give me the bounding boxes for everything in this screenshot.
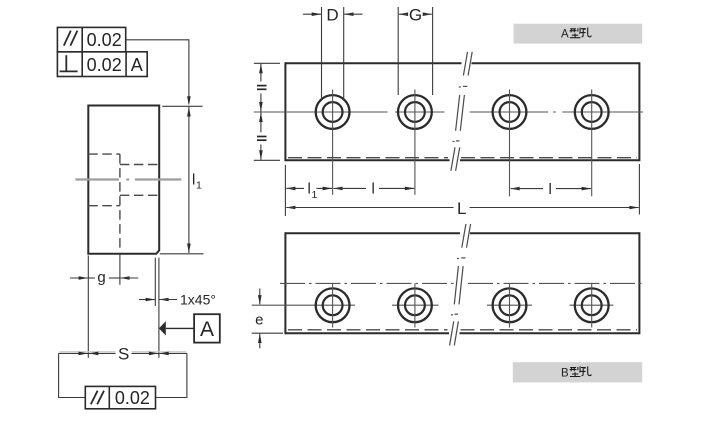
dimension l1 side view: arrow down (187, 244, 191, 254)
A-hole 3 vertical centerline + extension (509, 90, 511, 197)
svg-text:g: g (97, 269, 105, 286)
B-hole 1 vertical centerline (332, 284, 334, 328)
A-hole 1 vertical centerline + extension (332, 90, 334, 195)
A-bar label glyph kong (581, 28, 592, 37)
equal symbol lower (257, 137, 267, 141)
B-hole 3 (493, 288, 527, 322)
svg-text:L: L (457, 199, 466, 218)
B-hole 2 (398, 288, 432, 322)
hidden line bore lower-right (120, 194, 159, 196)
B-bar outline: bottom edge with break gap (285, 332, 449, 334)
A-hole 3 (493, 95, 527, 129)
A-bar label plate (514, 24, 643, 44)
A-bar outline: top edge with break gap (285, 62, 639, 161)
dimension l1 side view: top extension line (162, 105, 202, 107)
svg-text:1: 1 (312, 189, 318, 201)
svg-text:G: G (409, 6, 422, 25)
B-bar outline: right edge (638, 232, 640, 334)
dimension G: extension lines (397, 7, 399, 95)
A-hole 2 (398, 95, 432, 129)
svg-text:l: l (192, 172, 195, 189)
dimension l1 side view: bottom extension line (160, 253, 204, 255)
chamfer dimension 1x45: extension lines (154, 258, 156, 306)
datum feature symbol A: filled triangle (159, 321, 166, 335)
B-hole 3 vertical centerline (509, 284, 511, 328)
hidden line counterbore lower-left (88, 205, 120, 207)
svg-text:1: 1 (196, 180, 202, 192)
A-bar horizontal centerline (254, 111, 643, 113)
B-hole 2 vertical centerline (414, 284, 416, 328)
dimension g: right extension (119, 254, 121, 285)
A-bar hidden line near bottom (288, 157, 637, 159)
svg-text:1x45°: 1x45° (180, 291, 216, 307)
bottom feature control frame FCF2 (parallelism // 0.02) (85, 386, 155, 408)
svg-text:D: D (326, 6, 338, 25)
feature control frame FCF1 (parallelism // 0.02 over perpendicularity 0.02 A) (57, 27, 147, 76)
leader arrowhead down (187, 96, 191, 106)
B-bar outline: top edge with break gap (285, 232, 639, 334)
svg-text:0.02: 0.02 (115, 388, 150, 408)
dimension g: inner stubs (88, 277, 95, 279)
svg-text:0.02: 0.02 (87, 30, 122, 50)
B-hole 1 (316, 288, 350, 322)
dimension D: right arrow outside (344, 12, 354, 16)
svg-text:l: l (372, 181, 375, 198)
dimension L: line and arrows (286, 206, 296, 210)
svg-text:l: l (549, 181, 552, 198)
equal-equal dimension line upper segment (260, 64, 262, 82)
hidden line counterbore upper-left (88, 153, 120, 155)
B-bar break line marks (450, 224, 471, 346)
equal-equal dimension: top extension (254, 62, 280, 64)
dimension l1 top view: arrows and line (286, 187, 296, 191)
dimension D: extension lines (321, 7, 323, 101)
dimension S: arrows at left extension (79, 352, 89, 356)
frame connector loop to bottom FCF (59, 353, 187, 397)
dimension g: right arrow and tail (120, 276, 130, 280)
dimension l right: arrows and line (510, 187, 520, 191)
dimension g: left extension (block left face extended, shared with S) (87, 256, 89, 358)
A-bar outline: bottom edge with break gap (285, 159, 449, 161)
svg-text:0.02: 0.02 (87, 55, 122, 75)
parallel symbol in FCF2 (91, 391, 104, 405)
chamfer dimension: left arrow (139, 299, 155, 301)
svg-text:e: e (255, 311, 263, 328)
A-bar break line marks (451, 52, 472, 171)
dimension g: left arrow and tail (70, 277, 88, 279)
equal-equal dimension line lower segment (260, 113, 262, 133)
svg-text:A: A (200, 318, 214, 341)
A-hole 1 (316, 95, 350, 129)
svg-text:S: S (118, 344, 129, 363)
datum A box (194, 314, 220, 342)
dimension D: left arrow outside (303, 13, 321, 15)
hidden line bore upper-right (120, 164, 159, 166)
block side view outline with bottom-right chamfer (88, 106, 159, 254)
A-hole 2 vertical centerline + extension (414, 90, 416, 195)
datum A leader (166, 327, 194, 329)
dimension l1 side view: arrow up (187, 107, 191, 117)
arrows of equal-equal dims (259, 64, 263, 74)
svg-text:l: l (308, 181, 311, 198)
dimension l1 top view: left extension (284, 165, 286, 216)
equal-equal dimension: bottom extension (254, 159, 280, 161)
svg-text:A: A (561, 29, 569, 41)
dimension l1 side view: dimension line (188, 107, 190, 253)
parallel symbol in FCF1 row1 (64, 31, 78, 46)
perpendicular symbol in FCF1 row2 (60, 55, 78, 71)
B-bar label plate (513, 362, 642, 382)
B-bar label glyph xing (570, 366, 581, 376)
chamfer dimension: right arrow and tail (159, 298, 169, 302)
B-bar hidden line near bottom (288, 329, 637, 331)
A-bar outline: right edge (638, 62, 640, 161)
equal symbol upper (257, 86, 267, 90)
B-hole 4 (575, 288, 609, 322)
hidden line counterbore step vertical (119, 154, 121, 252)
A-bar label glyph xing (570, 28, 581, 38)
A-hole 4 (575, 95, 609, 129)
dimension l left: arrows and line (333, 187, 343, 191)
dimension S: gray companion line (59, 351, 186, 353)
gray hole axis centerline of side view (75, 178, 181, 180)
leader from FCF1 to top face extension (126, 40, 189, 104)
B-hole axis horizontal centerline segments (252, 304, 614, 306)
dimension G: left arrow inside (399, 12, 409, 16)
dimension e: upper arrow (pointing down) (259, 289, 261, 305)
dimension e: bottom edge extension (252, 332, 283, 334)
dimension G: right arrow inside (423, 12, 433, 16)
dimension L: right extension (638, 164, 640, 215)
B-bar outline: left edge (284, 232, 286, 334)
B-bar label glyph kong (581, 366, 592, 375)
A-bar outline: left edge (284, 62, 286, 161)
dimension S: dimension line segments (59, 352, 187, 354)
B-hole 4 vertical centerline (591, 284, 593, 328)
svg-text:B: B (561, 367, 569, 379)
B-bar mid dash-dot centerline (280, 282, 645, 284)
A-hole 4 vertical centerline + extension (591, 90, 593, 197)
svg-text:A: A (131, 55, 143, 75)
dimension e: lower arrow (pointing up) (259, 334, 261, 349)
dimension S: arrows at right extension (149, 352, 159, 356)
